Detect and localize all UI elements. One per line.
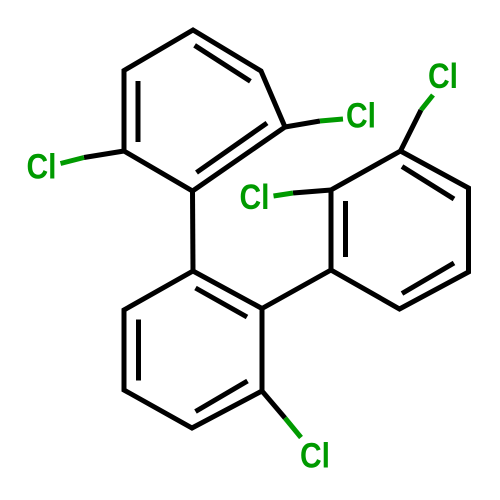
svg-text:Cl: Cl	[346, 96, 376, 135]
svg-text:Cl: Cl	[428, 57, 458, 96]
svg-text:Cl: Cl	[27, 148, 57, 187]
svg-text:Cl: Cl	[300, 436, 330, 475]
svg-text:Cl: Cl	[240, 178, 270, 217]
